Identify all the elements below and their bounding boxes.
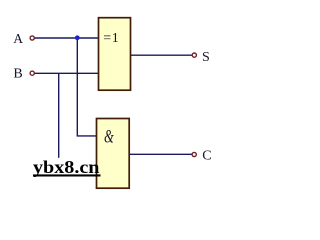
svg-text:B: B (13, 66, 22, 81)
svg-text:C: C (202, 148, 211, 163)
svg-text:&: & (104, 127, 114, 148)
svg-text:=1: =1 (103, 31, 119, 46)
svg-text:ybx8.cn: ybx8.cn (33, 157, 100, 177)
svg-text:S: S (202, 50, 210, 65)
svg-text:A: A (13, 32, 24, 47)
